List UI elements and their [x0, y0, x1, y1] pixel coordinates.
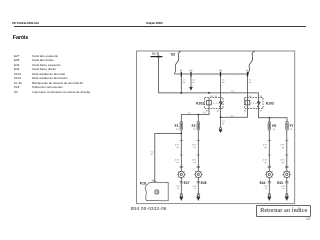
- connector dash E43 wire b: [285, 154, 288, 156]
- header rule: [14, 25, 307, 28]
- legend list: [14, 54, 90, 95]
- wire F7 to lamp E43: [286, 130, 288, 171]
- K102 coil leg wire: [220, 98, 222, 109]
- svg-text:br: br: [194, 187, 196, 190]
- panel P18 box: [145, 182, 168, 201]
- connector dash E27 wire b: [180, 154, 183, 156]
- S3 pin 56a terminal: [190, 72, 192, 77]
- arrow 56a circuit reference: [189, 87, 193, 91]
- wire E43 to ground: [286, 178, 288, 195]
- svg-text:F1: F1: [175, 124, 179, 128]
- svg-text:ge: ge: [264, 147, 267, 149]
- S3 pin 56 terminal: [247, 72, 249, 77]
- wire S3 56a stub: [190, 77, 192, 87]
- svg-text:sw: sw: [183, 82, 186, 84]
- wire tap to P18: [155, 134, 182, 183]
- wire F6 drop: [268, 118, 270, 122]
- svg-text:85: 85: [217, 111, 220, 113]
- ground W2 E27: [179, 194, 183, 201]
- ground W3 E43: [285, 194, 289, 201]
- svg-text:ws: ws: [193, 162, 196, 164]
- K102 link dash: [211, 102, 219, 104]
- lamp E28: [194, 170, 203, 179]
- lamp E44: [265, 170, 274, 179]
- junction dot P18 tap: [180, 133, 182, 135]
- svg-text:ws: ws: [193, 147, 196, 149]
- svg-text:10: 10: [290, 129, 293, 131]
- svg-text:S3: S3: [171, 52, 175, 56]
- S3 pin 30 terminal: [180, 72, 182, 77]
- svg-text:br: br: [222, 122, 224, 125]
- relay K102 box: [205, 98, 224, 109]
- wire coil common to K103: [221, 109, 248, 118]
- wire E28 to ground: [197, 178, 199, 195]
- ground W2 E28: [196, 194, 200, 201]
- svg-text:16: 16: [176, 129, 179, 131]
- connector dash E44 wire a: [268, 140, 271, 142]
- svg-text:K103: K103: [266, 102, 274, 106]
- K102 contact blade: [219, 102, 222, 107]
- connector dash E27 wire a: [180, 140, 183, 142]
- terminal dashes below lamps: [180, 181, 289, 183]
- lamp E43: [282, 170, 291, 179]
- svg-text:K102: K102: [196, 102, 204, 106]
- wire E44 to ground: [268, 178, 270, 195]
- connector dash E28 wire a: [197, 140, 200, 142]
- svg-text:56b: 56b: [219, 70, 223, 72]
- junction dot coil common: [220, 116, 222, 118]
- schematic frame: [137, 51, 295, 204]
- junction dot rail/S3-30: [180, 92, 182, 94]
- switch S3 right torn edge: [248, 51, 255, 74]
- relay K103 box: [245, 98, 264, 109]
- ground W3 E44: [267, 194, 271, 201]
- wire S3 56b to K102 coil: [220, 77, 222, 98]
- node KL 30 bus bar: [151, 56, 163, 58]
- junction dot KL30 bus: [157, 55, 159, 57]
- svg-text:ws: ws: [176, 147, 179, 149]
- svg-text:E43: E43: [277, 181, 283, 185]
- svg-text:10: 10: [273, 129, 276, 131]
- svg-text:56a: 56a: [189, 70, 193, 72]
- wire F1 to lamp E27: [180, 130, 182, 171]
- svg-text:F6: F6: [272, 124, 276, 128]
- switch S3 left torn edge: [174, 51, 181, 74]
- svg-text:86: 86: [215, 96, 218, 98]
- K102 contact circle: [220, 101, 222, 103]
- fuse F6: [268, 122, 271, 130]
- wire F2 to lamp E28: [197, 130, 199, 171]
- terminal dashes above lamps: [180, 166, 289, 168]
- P18 entry dash: [153, 181, 156, 183]
- svg-text:E44: E44: [260, 181, 266, 185]
- page number: [306, 217, 310, 221]
- wire K102-87 down-left to fuses: [181, 109, 209, 122]
- wire S3 pin30 to rail: [180, 77, 182, 93]
- ground arrow relay coils: [220, 128, 222, 130]
- lamp E27: [177, 170, 186, 179]
- P18 high-beam telltale lamp: [155, 190, 159, 194]
- switch S3 bottom edge: [175, 73, 249, 75]
- return-to-index button: [256, 205, 311, 216]
- header edition: [146, 21, 162, 25]
- fuse F2: [197, 122, 200, 130]
- wire E27 to ground: [180, 178, 182, 195]
- wire S3 56 to K103 coil: [247, 77, 249, 98]
- svg-text:85: 85: [244, 111, 247, 113]
- title Farois: [13, 35, 28, 41]
- svg-text:KL 30: KL 30: [152, 52, 159, 56]
- svg-text:F2: F2: [192, 124, 196, 128]
- wire K103-87 down-right to fuses: [259, 109, 288, 122]
- svg-text:E28: E28: [201, 181, 207, 185]
- K103 contact blade: [257, 102, 260, 107]
- svg-text:ge: ge: [264, 162, 267, 164]
- svg-text:30: 30: [180, 70, 183, 72]
- connector dash E44 wire b: [268, 154, 271, 156]
- svg-text:ws: ws: [192, 82, 195, 84]
- K103 coil leg wire: [247, 98, 249, 109]
- svg-text:ge: ge: [282, 147, 285, 149]
- junction dot F6 tap: [268, 117, 270, 119]
- K103 contact circle: [258, 101, 260, 103]
- svg-text:ge: ge: [282, 162, 285, 164]
- svg-text:F7: F7: [290, 124, 294, 128]
- fuse F1: [180, 122, 183, 130]
- svg-text:sw: sw: [222, 82, 225, 84]
- svg-text:br: br: [177, 187, 179, 190]
- svg-text:ws: ws: [176, 162, 179, 164]
- svg-text:sw: sw: [249, 82, 252, 84]
- wire F6 to lamp E44: [268, 130, 270, 171]
- K103 link dash: [250, 102, 257, 104]
- junction dot rail/K102-30: [208, 92, 210, 94]
- wire KL30 feed down: [157, 57, 159, 93]
- K103 coil rect: [245, 100, 250, 105]
- junction dot F2 tap: [197, 114, 199, 116]
- svg-text:bl: bl: [151, 154, 153, 156]
- svg-text:16: 16: [193, 129, 196, 131]
- svg-text:P18: P18: [140, 181, 146, 185]
- connector dash E28 wire b: [197, 154, 200, 156]
- K103 contact leg wire: [258, 98, 260, 108]
- svg-text:E27: E27: [184, 181, 190, 185]
- S3 pin 56b terminal: [220, 72, 222, 77]
- wire power rail term.30: [158, 93, 258, 98]
- wire F2 drop: [197, 115, 199, 122]
- K102 contact leg wire: [208, 98, 210, 109]
- svg-text:86: 86: [249, 96, 252, 98]
- svg-text:30: 30: [260, 96, 263, 98]
- svg-text:br: br: [283, 187, 285, 190]
- wire K102 coil return: [220, 109, 222, 128]
- connector dash E43 wire a: [285, 140, 288, 142]
- header document number: [12, 21, 39, 25]
- K102 coil rect: [207, 100, 212, 105]
- svg-text:br: br: [265, 187, 267, 190]
- footer drawing number: [131, 206, 167, 211]
- svg-text:87: 87: [260, 111, 263, 113]
- fuse F7: [286, 122, 289, 130]
